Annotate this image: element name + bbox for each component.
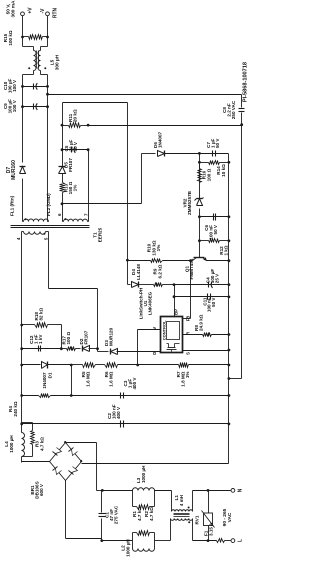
diode D7 MUR160 output rectifier — [20, 167, 26, 174]
diode D4 LL4148 — [128, 284, 131, 286]
fuse F1 3.15A — [217, 539, 225, 543]
svg-text:24.9 kΩ: 24.9 kΩ — [199, 314, 204, 331]
svg-text:275 VAC: 275 VAC — [114, 505, 119, 524]
svg-text:6: 6 — [57, 213, 62, 216]
resistor R18 82k clamp — [20, 324, 23, 327]
capacitor C6 100nF 50V — [198, 215, 201, 218]
wire +V rail from T1 secondary to output — [22, 179, 24, 222]
wire L line — [102, 540, 133, 542]
svg-text:50 V: 50 V — [215, 138, 220, 148]
resistor R8 24.9k on R pin — [183, 334, 203, 336]
inductor L4 1000uH — [22, 433, 25, 457]
bridge diodes — [56, 469, 62, 475]
svg-text:3.15 A: 3.15 A — [208, 522, 213, 536]
svg-text:4 mH: 4 mH — [179, 494, 184, 506]
junction Q1 collector to return rail — [228, 259, 231, 262]
wire bias node junction — [61, 202, 64, 205]
wire S pin to return rail — [183, 350, 229, 352]
svg-text:300 µH: 300 µH — [55, 54, 61, 70]
capacitor C10 100uF 100V — [23, 86, 48, 88]
common mode choke L1 4mH — [171, 491, 173, 512]
junction bus and D1 — [20, 364, 23, 367]
svg-text:1N4007: 1N4007 — [158, 131, 163, 148]
svg-text:1%: 1% — [156, 245, 161, 252]
junction drain node at clamp — [96, 347, 99, 350]
svg-text:4.7 kΩ: 4.7 kΩ — [137, 507, 142, 521]
wire FB pin to feedback node — [183, 318, 191, 320]
resistor R9 6.2k — [154, 283, 163, 287]
wire drain from T1 pin 5 — [48, 232, 50, 289]
svg-text:ZMM5257B: ZMM5257B — [187, 190, 192, 215]
wire bridge AC1 to N line — [66, 442, 97, 444]
resistor R5 1.6M — [72, 364, 83, 366]
wire secondary bias return rail along bottom — [241, 125, 243, 379]
capacitor C5 22uF 50V — [61, 148, 64, 151]
wire bridge - output to return rail — [82, 463, 229, 465]
svg-text:1.6 MΩ: 1.6 MΩ — [86, 371, 91, 386]
diode D2 FR107 clamp — [83, 346, 90, 352]
wire bias feed down to secondary-reference network — [63, 102, 128, 104]
input terminal N — [231, 489, 235, 493]
svg-text:4.7 kΩ: 4.7 kΩ — [149, 507, 154, 521]
resistor R11 20k — [61, 124, 64, 127]
svg-text:6.2 kΩ: 6.2 kΩ — [157, 264, 162, 278]
diode D3 MUR120 on drain pin — [97, 349, 99, 352]
varistor RV1 — [208, 491, 210, 541]
svg-text:L: L — [238, 539, 244, 542]
resistor R7 1.8M 1% lower divider — [138, 364, 179, 366]
resistor R15 100k bleeder — [23, 36, 29, 38]
bridge rectifier BR1 DB106S — [50, 443, 66, 462]
svg-text:20 kΩ: 20 kΩ — [73, 109, 78, 122]
svg-text:S: S — [185, 352, 190, 355]
svg-text:50 V: 50 V — [211, 297, 216, 307]
svg-text:MUR160: MUR160 — [11, 160, 17, 180]
svg-text:400 V: 400 V — [132, 377, 137, 390]
svg-text:25 V: 25 V — [215, 273, 220, 283]
node A junction — [198, 152, 201, 155]
svg-text:-V: -V — [40, 8, 46, 14]
svg-text:EER25: EER25 — [97, 227, 102, 242]
svg-text:R: R — [185, 332, 190, 335]
inductor L2 1000uH in L line — [132, 541, 134, 549]
capacitor C2 100nF 400V — [22, 423, 229, 425]
wire primary DC bus rail — [21, 457, 23, 463]
capacitor C11 100nF 50V — [175, 296, 229, 298]
svg-text:300 mA: 300 mA — [11, 0, 17, 18]
resistor R4 240k — [22, 395, 39, 397]
wire BP pin to bypass caps — [174, 285, 176, 317]
wire RTN rail from T1 secondary to output — [47, 75, 49, 222]
svg-text:100 V: 100 V — [12, 79, 17, 92]
wire N line — [103, 490, 133, 492]
svg-text:4.7 kΩ: 4.7 kΩ — [39, 437, 44, 451]
capacitor C1 47nF 275VAC X2 — [101, 491, 103, 513]
wire bridge + output to bus — [22, 461, 50, 463]
svg-text:7: 7 — [84, 213, 89, 216]
resistor R16 100 ohm — [199, 165, 201, 183]
svg-text:1%: 1% — [185, 372, 190, 379]
diode D6 1N4007 — [142, 153, 156, 155]
svg-text:100 Ω: 100 Ω — [207, 168, 212, 181]
svg-text:D: D — [152, 352, 157, 355]
svg-text:FR107: FR107 — [68, 158, 73, 172]
junction bus and C2 — [20, 423, 23, 426]
svg-text:100 V: 100 V — [12, 99, 17, 112]
svg-text:250 VAC: 250 VAC — [231, 100, 236, 119]
capacitor C8 2.2nF 250VAC Y1 — [241, 95, 243, 108]
resistor R14 10k — [198, 161, 201, 164]
wire V pin to sense divider — [138, 329, 161, 331]
input terminal L — [231, 539, 235, 543]
zener VR2 ZMM5257B — [199, 241, 201, 258]
output terminal +V — [21, 12, 25, 16]
svg-text:RTN: RTN — [53, 7, 59, 18]
svg-text:FR107: FR107 — [84, 330, 89, 344]
IC U1 LNK406EG LinkSwitch-PH — [161, 317, 183, 353]
wire N line to terminal — [193, 490, 231, 492]
svg-text:RV1: RV1 — [195, 515, 200, 524]
svg-text:1%: 1% — [73, 185, 78, 192]
svg-text:+V: +V — [28, 7, 34, 14]
svg-text:1 kV: 1 kV — [38, 334, 43, 344]
resistor R3 4.7k parallel damping — [22, 422, 33, 424]
svg-text:FL2 (GND): FL2 (GND) — [46, 193, 51, 216]
junction L line with C1 — [100, 539, 103, 542]
svg-text:BP: BP — [174, 309, 179, 315]
svg-text:1 kΩ: 1 kΩ — [224, 245, 229, 255]
transformer T1 secondary winding FL1 — [24, 219, 49, 222]
junction bus and clamp — [20, 347, 23, 350]
svg-text:50 V: 50 V — [213, 224, 218, 234]
svg-text:1000 µH: 1000 µH — [125, 539, 130, 557]
output terminal RTN (-V) — [46, 12, 50, 16]
transformer T1 bias winding FL2 pins 6-7 — [64, 219, 88, 221]
transformer T1 primary winding pins 4-5 — [24, 232, 46, 235]
svg-text:1000 µH: 1000 µH — [141, 465, 146, 483]
transistor Q1 FMMT491 — [194, 257, 205, 259]
capacitor C9 100uF 100V — [23, 106, 48, 108]
capacitor C7 1uF 50V — [200, 153, 229, 155]
svg-text:LNK406EG: LNK406EG — [148, 291, 153, 315]
resistor R2 4.7k damping parallel L2 — [132, 533, 134, 541]
resistor R1 4.7k damping parallel L3 — [132, 491, 134, 507]
svg-text:240 kΩ: 240 kΩ — [13, 401, 18, 416]
diode D1 1N4007 line sense — [22, 364, 41, 366]
resistor R6 1.6M — [105, 363, 118, 368]
junction dots on return rail — [228, 423, 231, 426]
svg-text:CONTROL: CONTROL — [161, 320, 166, 340]
svg-text:100 Ω: 100 Ω — [66, 332, 71, 345]
wire L line to L1 — [155, 540, 171, 542]
junction R4/C3 node to D1 node — [70, 394, 73, 397]
resistor R13 150 ohm 1% — [62, 193, 64, 204]
wire primary return rail (source bus) — [228, 154, 230, 464]
wire bias return to primary return rail — [89, 125, 242, 127]
resistor R12 1k — [198, 239, 201, 242]
svg-text:600 V: 600 V — [39, 483, 44, 496]
junction N line with C1 — [101, 489, 104, 492]
wire N line to L1 — [155, 490, 172, 492]
capacitor C12 1nF 1kV clamp — [22, 348, 62, 350]
svg-text:MUR120: MUR120 — [109, 327, 114, 346]
svg-text:10 kΩ: 10 kΩ — [221, 164, 226, 177]
capacitor C3 1uF 400V — [72, 395, 229, 397]
wire L line to RV1 and fuse — [193, 540, 217, 542]
wire bias node to D6 — [63, 203, 142, 205]
svg-text:1N4007: 1N4007 — [42, 372, 47, 389]
svg-text:50 V: 50 V — [73, 141, 78, 151]
diode D5 FR107 bias rectifier — [59, 167, 66, 174]
inductor L5 300uH coupled output choke — [23, 74, 34, 76]
junction clamp node — [60, 347, 63, 350]
svg-text:100 kΩ: 100 kΩ — [8, 30, 13, 45]
resistor R17 100 ohm clamp — [62, 348, 67, 350]
svg-text:VAC: VAC — [227, 512, 233, 522]
svg-text:1.6 MΩ: 1.6 MΩ — [109, 371, 114, 386]
svg-text:LL4148: LL4148 — [136, 264, 141, 280]
capacitor C4 100uF 25V — [175, 284, 229, 286]
svg-text:FL1 (Rtn): FL1 (Rtn) — [10, 195, 15, 216]
svg-text:N: N — [238, 488, 244, 492]
transformer T1 EER25 core — [11, 227, 90, 229]
junction bus and R4 — [20, 394, 23, 397]
svg-text:4: 4 — [16, 237, 21, 240]
svg-text:400 V: 400 V — [116, 406, 121, 419]
svg-text:PI-5868-100718: PI-5868-100718 — [243, 62, 249, 102]
svg-text:D1: D1 — [48, 372, 53, 378]
wire bridge AC2 to L line — [65, 481, 67, 539]
svg-text:5: 5 — [44, 237, 49, 240]
svg-text:82 kΩ: 82 kΩ — [39, 308, 44, 321]
inductor L3 1000uH in N line — [133, 488, 155, 491]
junction FB node with R10 and emitter — [189, 259, 192, 262]
svg-text:FB: FB — [185, 316, 190, 322]
wire RTN to C8 Y-capacitor — [48, 94, 242, 96]
svg-text:1000 µH: 1000 µH — [9, 435, 14, 453]
resistor R10 130k 1% — [126, 259, 129, 262]
